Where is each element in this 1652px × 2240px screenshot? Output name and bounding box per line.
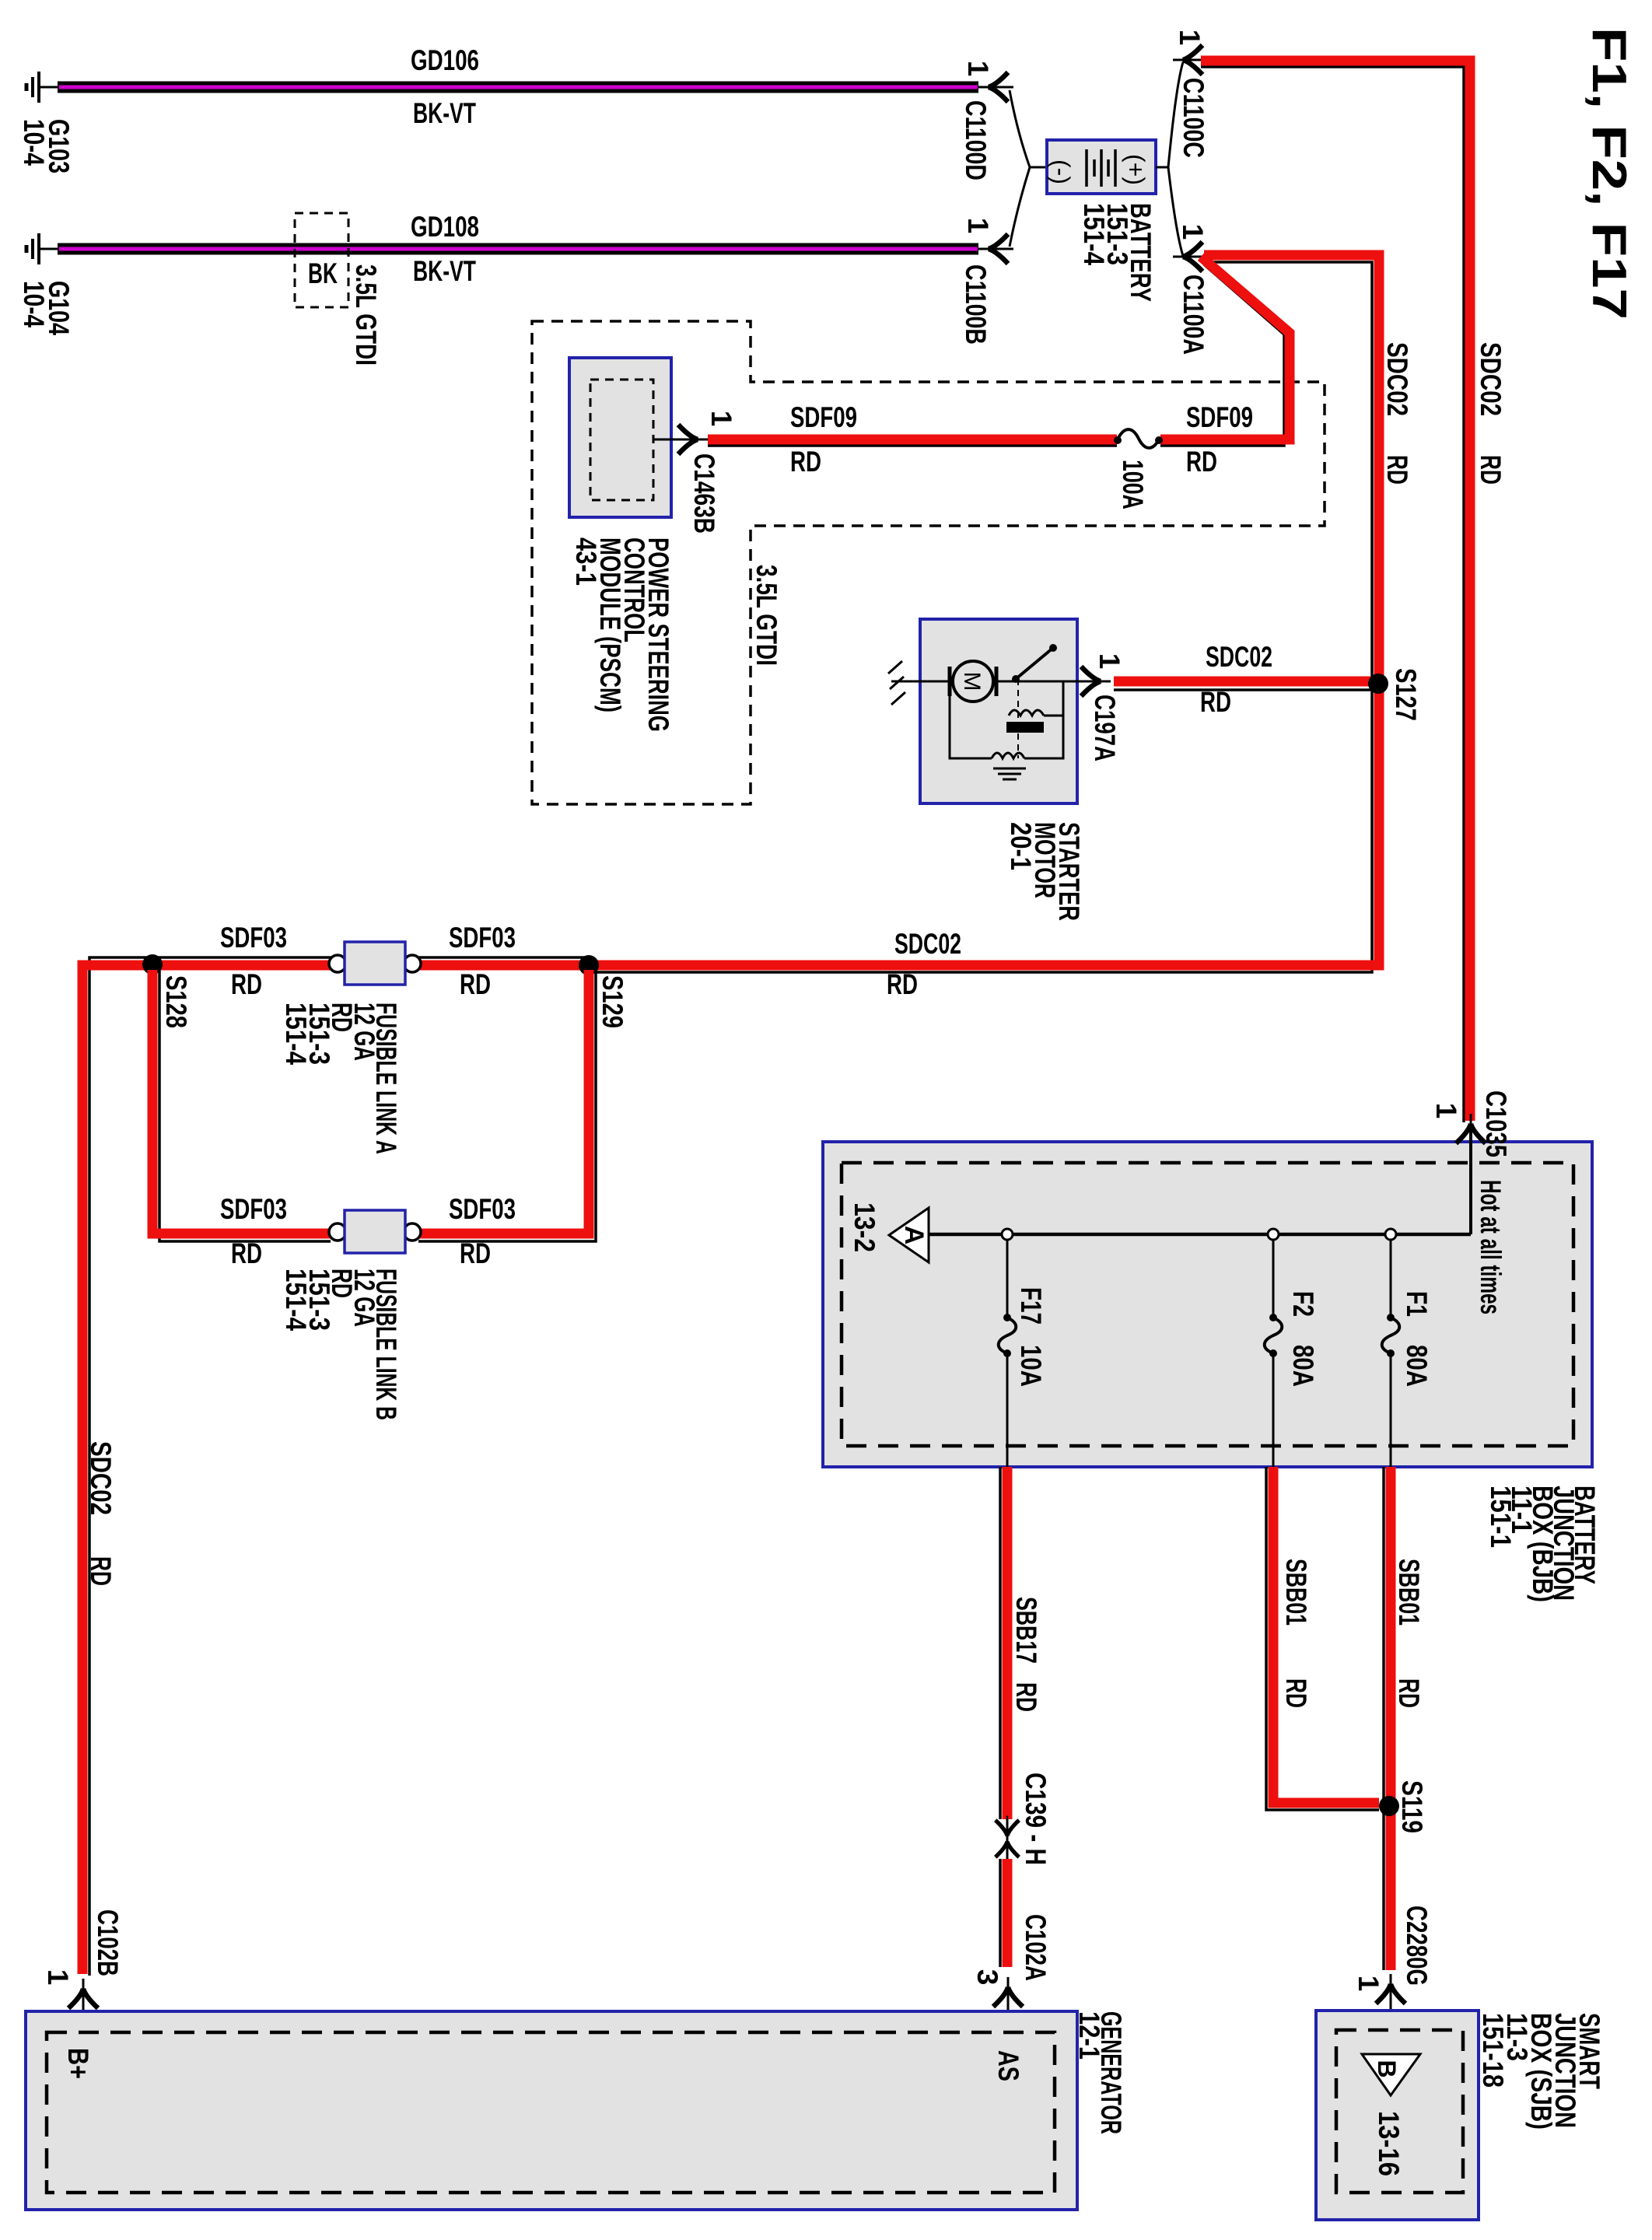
wire battery negative stubs	[1010, 90, 1030, 167]
svg-text:10-4: 10-4	[18, 281, 50, 327]
svg-text:100A: 100A	[1117, 460, 1149, 509]
wire GD108 BK-VT	[40, 248, 59, 250]
battery	[1047, 140, 1156, 194]
svg-text:SDF03: SDF03	[449, 1193, 516, 1225]
svg-text:C1100B: C1100B	[960, 264, 992, 345]
svg-text:RD: RD	[460, 1237, 491, 1269]
wire hot feed into BJB	[1469, 1129, 1472, 1234]
connector C102A	[993, 1977, 1023, 2012]
svg-text:20-1: 20-1	[1005, 822, 1037, 870]
svg-text:151-18: 151-18	[1477, 2013, 1509, 2088]
svg-text:1: 1	[1094, 653, 1125, 670]
bus bar	[929, 1233, 1471, 1237]
svg-text:SBB01: SBB01	[1393, 1559, 1425, 1626]
wire SBB01 RD from F2 to S119	[1266, 1467, 1379, 1810]
svg-text:B+: B+	[62, 2048, 94, 2079]
svg-text:RD: RD	[887, 968, 918, 1000]
svg-text:Hot at all times: Hot at all times	[1475, 1180, 1507, 1314]
svg-text:S127: S127	[1390, 668, 1422, 721]
connector C1100A	[1173, 242, 1208, 271]
svg-text:RD: RD	[1186, 446, 1217, 478]
solenoid coil	[1009, 710, 1044, 716]
svg-text:C197A: C197A	[1089, 695, 1121, 761]
wire SDC02 RD starter to S127	[1114, 688, 1372, 691]
svg-text:SDC02: SDC02	[1475, 342, 1507, 416]
svg-text:151-4: 151-4	[280, 1003, 312, 1065]
svg-text:RD: RD	[231, 1237, 262, 1269]
svg-text:1: 1	[1353, 1976, 1384, 1992]
wire SBB01 RD from F1 through S119 to C2280G	[1382, 1467, 1385, 1970]
svg-text:151-1: 151-1	[1485, 1486, 1517, 1548]
fusible link A	[329, 955, 346, 972]
svg-text:BK-VT: BK-VT	[413, 97, 476, 129]
svg-text:1: 1	[42, 1969, 74, 1986]
svg-text:F1: F1	[1401, 1291, 1433, 1317]
svg-text:C1100A: C1100A	[1178, 275, 1209, 355]
connector C197A	[1076, 667, 1111, 696]
svg-text:S119: S119	[1396, 1780, 1428, 1833]
connector C1463B	[673, 425, 708, 454]
fusible link 100A	[1114, 436, 1122, 444]
svg-text:SDC02: SDC02	[1206, 641, 1272, 673]
svg-text:1: 1	[1177, 224, 1209, 240]
wire SDF09 RD from C1100A diagonal to PSCM	[1160, 264, 1284, 446]
connector C1100C	[1173, 45, 1208, 75]
svg-text:SDF09: SDF09	[790, 401, 857, 433]
ground G104	[26, 233, 39, 264]
svg-text:RD: RD	[1393, 1678, 1425, 1708]
svg-text:3.5L GTDI: 3.5L GTDI	[350, 264, 382, 366]
connector C102B	[68, 1979, 98, 2014]
svg-text:RD: RD	[1010, 1682, 1042, 1712]
fuse F1 80A	[1385, 1229, 1396, 1240]
svg-text:80A: 80A	[1401, 1345, 1433, 1387]
svg-text:SDC02: SDC02	[894, 928, 961, 960]
svg-text:RD: RD	[231, 968, 262, 1000]
svg-text:12-1: 12-1	[1073, 2011, 1105, 2060]
svg-text:B: B	[1373, 2060, 1401, 2077]
svg-text:151-4: 151-4	[280, 1269, 312, 1331]
svg-text:C139 - H: C139 - H	[1020, 1773, 1052, 1865]
connector C1035	[1456, 1114, 1486, 1149]
svg-text:RD: RD	[790, 446, 821, 478]
svg-text:RD: RD	[1475, 455, 1507, 485]
connector C2280G	[1376, 1974, 1405, 2009]
wire SDC02 RD from C1100C down right side to C1035	[1201, 67, 1464, 1122]
ground (starter)	[891, 681, 950, 683]
svg-text:GD108: GD108	[411, 211, 479, 243]
svg-text:1: 1	[1174, 30, 1206, 46]
connector C139-H	[1006, 1819, 1009, 1859]
svg-text:F1, F2, F17: F1, F2, F17	[1582, 27, 1636, 320]
svg-text:SDC02: SDC02	[1381, 342, 1413, 416]
coil ground hatch	[993, 768, 1026, 770]
svg-text:(+): (+)	[1122, 154, 1150, 185]
junction S128	[142, 954, 163, 975]
svg-text:C2280G: C2280G	[1401, 1906, 1433, 1986]
fusible link B	[329, 1223, 346, 1241]
motor M	[948, 667, 952, 696]
svg-text:SBB17: SBB17	[1010, 1597, 1042, 1664]
fuse F17 10A	[1002, 1229, 1013, 1240]
svg-text:1: 1	[962, 61, 994, 77]
wire SBB17 RD lower to C102A	[999, 1859, 1002, 1967]
svg-text:C1100C: C1100C	[1178, 78, 1209, 158]
svg-text:1: 1	[705, 411, 737, 427]
svg-text:RD: RD	[85, 1556, 117, 1586]
generator box	[26, 2011, 1077, 2210]
svg-text:SDF03: SDF03	[220, 1193, 287, 1225]
svg-text:13-2: 13-2	[849, 1202, 880, 1252]
svg-text:43-1: 43-1	[570, 537, 602, 586]
wire SDF03 RD S128 down to fusible link B	[159, 970, 331, 1241]
triangle B 13-16	[1362, 2054, 1420, 2095]
splice box BK (3.5L GTDI)	[295, 213, 348, 307]
starter motor box	[920, 619, 1077, 803]
triangle A 13-2	[889, 1208, 929, 1262]
svg-text:1: 1	[1430, 1103, 1462, 1119]
svg-text:10A: 10A	[1015, 1345, 1047, 1387]
svg-text:RD: RD	[1381, 455, 1413, 485]
svg-text:C1035: C1035	[1480, 1090, 1512, 1157]
svg-text:151-4: 151-4	[1078, 203, 1110, 265]
svg-text:S128: S128	[160, 975, 192, 1028]
svg-text:C102A: C102A	[1020, 1914, 1052, 1981]
svg-text:BK: BK	[308, 257, 338, 289]
svg-text:10-4: 10-4	[18, 119, 50, 166]
connector C1100B	[978, 234, 1013, 264]
dashed harness outline 3.5L GTDI around PSCM and SDF09	[532, 321, 1325, 804]
svg-text:RD: RD	[1280, 1678, 1312, 1708]
svg-text:SDC02: SDC02	[85, 1441, 117, 1515]
battery junction box BJB	[823, 1142, 1592, 1467]
wire battery positive stubs	[1156, 166, 1168, 169]
svg-text:SDF03: SDF03	[449, 922, 516, 954]
ground G103	[26, 72, 39, 103]
svg-text:F2: F2	[1287, 1291, 1319, 1317]
wire SDF03 RD fusible link B to S129	[418, 970, 596, 1241]
PSCM connector box	[569, 358, 671, 517]
svg-text:C1100D: C1100D	[960, 100, 992, 180]
junction S127	[1368, 674, 1388, 694]
svg-text:1: 1	[962, 218, 994, 234]
svg-text:C102B: C102B	[92, 1909, 124, 1976]
svg-text:13-16: 13-16	[1373, 2111, 1405, 2176]
junction S129	[579, 955, 599, 975]
svg-text:3: 3	[971, 1969, 1003, 1986]
svg-text:S129: S129	[597, 975, 628, 1028]
svg-text:A: A	[899, 1226, 929, 1245]
wire SDC02 RD from C1100A through S127 to S128 and down to C102B	[589, 262, 1372, 972]
svg-text:SDF09: SDF09	[1186, 401, 1253, 433]
fuse F2 80A	[1268, 1229, 1279, 1240]
wire PSCM pin 1	[653, 439, 689, 441]
wire GD106 BK-VT	[40, 86, 59, 89]
wire SBB17 RD from F17	[999, 1467, 1002, 1819]
svg-text:(-): (-)	[1047, 159, 1075, 184]
smart junction box SJB	[1316, 2011, 1479, 2220]
svg-text:RD: RD	[1200, 686, 1231, 718]
svg-text:M: M	[959, 672, 985, 691]
solenoid switch	[996, 681, 1077, 683]
svg-text:80A: 80A	[1287, 1345, 1319, 1387]
svg-text:SDF03: SDF03	[220, 922, 287, 954]
junction S119	[1379, 1796, 1399, 1816]
connector C1100D	[978, 72, 1013, 102]
svg-text:RD: RD	[460, 968, 491, 1000]
svg-text:GD106: GD106	[411, 44, 479, 76]
svg-text:AS: AS	[992, 2050, 1024, 2081]
svg-text:BK-VT: BK-VT	[413, 255, 476, 287]
svg-text:SBB01: SBB01	[1280, 1559, 1312, 1626]
svg-text:C1463B: C1463B	[688, 453, 720, 534]
svg-text:F17: F17	[1015, 1287, 1047, 1325]
svg-text:3.5L GTDI: 3.5L GTDI	[751, 565, 782, 666]
